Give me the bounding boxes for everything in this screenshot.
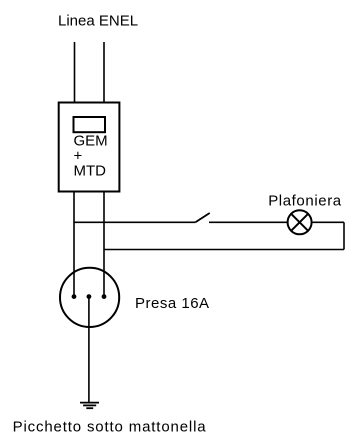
svg-text:Plafoniera: Plafoniera <box>268 193 342 210</box>
svg-text:Picchetto sotto mattonella: Picchetto sotto mattonella <box>13 419 207 436</box>
ground (earth electrode) <box>80 403 99 409</box>
socket Presa 16A: outline circle <box>60 268 119 327</box>
wire: bottom horizontal return to right conductor <box>104 249 344 251</box>
socket pin center (earth) <box>87 294 92 299</box>
wire: from lamp to right corner <box>312 221 344 223</box>
wire: earth conductor from socket center pin down to ground <box>88 297 90 403</box>
switch S1 (open blade) <box>195 213 209 222</box>
wire: left conductor from meter box down to socket left pin <box>73 192 75 297</box>
meter box GEM+MTD <box>59 103 120 192</box>
svg-text:MTD: MTD <box>74 163 107 180</box>
svg-text:Presa 16A: Presa 16A <box>135 295 210 312</box>
svg-text:Linea ENEL: Linea ENEL <box>58 13 138 30</box>
wire: right conductor from meter box down to socket right pin <box>103 192 105 297</box>
lamp Plafoniera (circle with X) <box>288 210 312 234</box>
wire: horizontal phase wire from left conductor to switch <box>74 221 195 223</box>
wire: from switch to lamp <box>209 221 288 223</box>
socket pin right <box>102 294 107 299</box>
wire: left supply conductor from Linea ENEL down to meter box <box>74 42 76 103</box>
wire: right supply conductor from Linea ENEL down to meter box <box>103 42 105 103</box>
wire: right vertical return drop <box>343 222 345 249</box>
socket pin left <box>72 294 77 299</box>
